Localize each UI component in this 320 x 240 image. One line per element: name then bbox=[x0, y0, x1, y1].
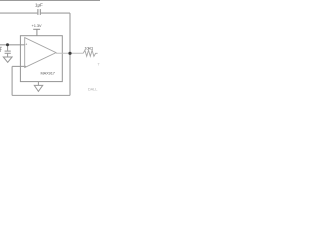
svg-text:10kΩ: 10kΩ bbox=[85, 47, 94, 51]
svg-text:T: T bbox=[97, 62, 100, 67]
svg-text:1μF: 1μF bbox=[35, 2, 43, 7]
svg-text:+: + bbox=[25, 42, 27, 46]
svg-text:+1.3V: +1.3V bbox=[32, 23, 42, 28]
svg-text:DALL: DALL bbox=[88, 87, 98, 92]
svg-text:MAX917: MAX917 bbox=[41, 71, 55, 76]
